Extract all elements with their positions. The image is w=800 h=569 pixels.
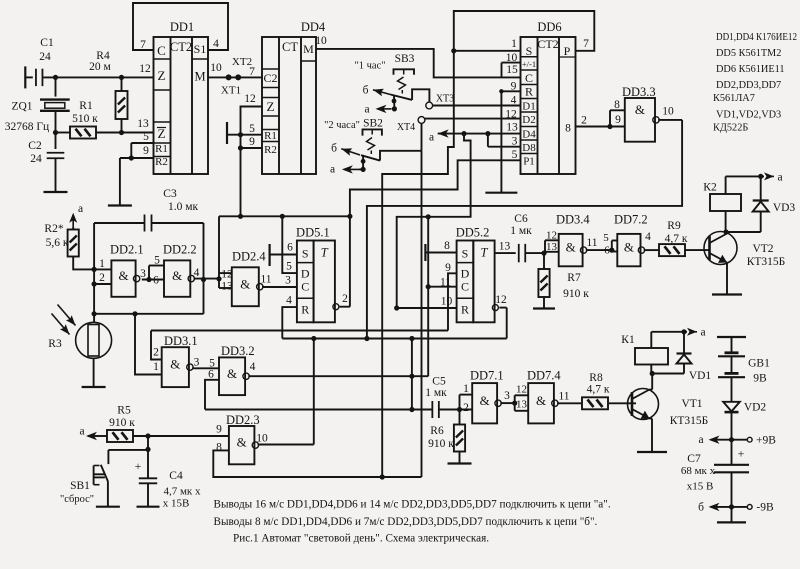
svg-text:Рис.1 Автомат "световой день".: Рис.1 Автомат "световой день". Схема эле… [233, 533, 489, 545]
svg-text:DD2,DD3,DD7: DD2,DD3,DD7 [716, 80, 781, 91]
svg-text:C: C [301, 280, 309, 294]
svg-text:13: 13 [499, 241, 511, 253]
svg-text:а: а [700, 327, 705, 339]
svg-text:R8: R8 [589, 372, 603, 384]
svg-text:68 мк х: 68 мк х [681, 465, 716, 477]
svg-text:К1: К1 [621, 334, 635, 346]
svg-text:2: 2 [581, 115, 587, 127]
svg-text:R: R [301, 303, 309, 317]
svg-text:3: 3 [512, 136, 518, 148]
svg-text:&: & [240, 276, 250, 291]
svg-text:DD5.1: DD5.1 [296, 226, 330, 240]
svg-text:4: 4 [213, 38, 219, 50]
svg-text:DD1,DD4 К176ИЕ12: DD1,DD4 К176ИЕ12 [716, 32, 797, 43]
svg-text:КТ315Б: КТ315Б [670, 415, 709, 427]
svg-text:2: 2 [342, 293, 348, 305]
svg-text:SB1: SB1 [70, 480, 90, 492]
svg-text:T: T [321, 246, 329, 260]
svg-text:VD1: VD1 [689, 370, 712, 382]
svg-text:&: & [172, 268, 182, 283]
svg-text:DD2.4: DD2.4 [232, 250, 266, 264]
svg-text:&: & [566, 240, 576, 255]
svg-text:P1: P1 [523, 156, 535, 168]
svg-text:9: 9 [445, 262, 451, 274]
svg-text:DD2.2: DD2.2 [163, 243, 197, 257]
svg-text:&: & [480, 393, 490, 408]
svg-text:а: а [777, 172, 782, 184]
svg-text:+/-1: +/-1 [522, 59, 536, 69]
svg-text:13: 13 [221, 281, 233, 293]
svg-text:11: 11 [586, 237, 597, 249]
svg-text:б: б [331, 143, 337, 155]
svg-text:VT1: VT1 [681, 398, 702, 410]
svg-text:а: а [79, 426, 84, 438]
svg-text:8: 8 [216, 442, 222, 454]
svg-text:C7: C7 [687, 453, 701, 465]
svg-text:КД522Б: КД522Б [713, 123, 748, 134]
svg-text:1: 1 [511, 38, 517, 50]
svg-text:DD7.1: DD7.1 [470, 369, 504, 383]
svg-text:"1 час": "1 час" [354, 61, 385, 72]
svg-text:8: 8 [444, 240, 450, 252]
svg-text:12: 12 [495, 294, 507, 306]
svg-text:DD2.3: DD2.3 [226, 413, 260, 427]
svg-text:DD5.2: DD5.2 [456, 226, 490, 240]
svg-text:R1: R1 [79, 100, 93, 112]
svg-text:24: 24 [30, 153, 42, 165]
svg-text:10: 10 [256, 433, 268, 445]
svg-text:&: & [624, 240, 634, 255]
svg-text:5: 5 [603, 232, 609, 244]
svg-text:12: 12 [139, 63, 151, 75]
svg-text:+9В: +9В [756, 435, 776, 447]
svg-text:&: & [237, 435, 247, 450]
svg-text:-9В: -9В [756, 502, 774, 514]
svg-text:VT2: VT2 [752, 243, 773, 255]
svg-text:&: & [635, 102, 645, 117]
svg-text:&: & [227, 366, 237, 381]
svg-text:R6: R6 [430, 425, 444, 437]
svg-text:1 мк: 1 мк [510, 225, 532, 237]
svg-text:ZQ1: ZQ1 [11, 101, 32, 113]
svg-text:13: 13 [506, 122, 518, 134]
svg-text:D4: D4 [522, 129, 536, 141]
svg-text:C5: C5 [432, 376, 446, 388]
svg-text:CT2: CT2 [170, 40, 192, 54]
svg-text:24: 24 [39, 51, 51, 63]
svg-text:К2: К2 [703, 182, 717, 194]
svg-text:DD3.4: DD3.4 [556, 213, 590, 227]
svg-text:DD6: DD6 [537, 20, 561, 34]
svg-text:4: 4 [250, 361, 256, 373]
svg-text:15: 15 [506, 64, 518, 76]
svg-text:XT2: XT2 [232, 56, 252, 68]
svg-text:1: 1 [99, 258, 105, 270]
svg-text:12: 12 [221, 269, 233, 281]
svg-text:2: 2 [463, 402, 469, 414]
svg-text:5: 5 [512, 149, 518, 161]
svg-text:9: 9 [216, 424, 222, 436]
svg-text:11: 11 [260, 274, 271, 286]
svg-text:7: 7 [583, 38, 589, 50]
svg-text:2: 2 [99, 272, 105, 284]
svg-text:S: S [462, 247, 469, 261]
svg-text:R2*: R2* [44, 223, 63, 235]
svg-text:1: 1 [153, 361, 159, 373]
svg-text:T: T [480, 246, 488, 260]
svg-text:+: + [738, 447, 745, 461]
svg-text:M: M [194, 70, 205, 84]
svg-text:910 к: 910 к [109, 417, 135, 429]
svg-text:C3: C3 [163, 188, 177, 200]
svg-text:C1: C1 [40, 37, 54, 49]
svg-text:S: S [302, 247, 309, 261]
svg-text:DD7.4: DD7.4 [527, 369, 561, 383]
svg-text:C6: C6 [514, 213, 528, 225]
svg-text:5: 5 [249, 123, 255, 135]
svg-text:ХТ4: ХТ4 [397, 122, 415, 133]
svg-text:R1: R1 [155, 143, 168, 155]
svg-text:4,7 мк х: 4,7 мк х [163, 486, 201, 498]
svg-text:DD4: DD4 [301, 20, 326, 34]
svg-text:х15 В: х15 В [687, 481, 714, 493]
svg-text:DD7.2: DD7.2 [614, 213, 648, 227]
svg-text:&: & [170, 357, 180, 372]
svg-text:SB3: SB3 [395, 53, 415, 65]
svg-text:4,7 к: 4,7 к [587, 384, 610, 396]
svg-text:C: C [157, 43, 166, 58]
svg-text:VD3: VD3 [773, 202, 796, 214]
svg-text:R9: R9 [667, 220, 681, 232]
svg-text:КТ315Б: КТ315Б [747, 256, 786, 268]
svg-text:D2: D2 [522, 114, 535, 126]
svg-text:4,7 к: 4,7 к [665, 233, 688, 245]
svg-text:10: 10 [210, 62, 222, 74]
svg-text:DD3.1: DD3.1 [164, 334, 198, 348]
svg-text:1 мк: 1 мк [425, 387, 447, 399]
svg-text:3: 3 [194, 357, 200, 369]
svg-text:9: 9 [143, 145, 149, 157]
svg-text:ХТ3: ХТ3 [436, 94, 454, 105]
svg-text:DD1: DD1 [170, 20, 194, 34]
svg-text:6: 6 [287, 242, 293, 254]
svg-text:13: 13 [137, 118, 149, 130]
svg-text:Z: Z [158, 68, 166, 83]
svg-text:х 15В: х 15В [163, 498, 190, 510]
svg-text:S: S [526, 44, 533, 58]
svg-text:910 к: 910 к [563, 288, 589, 300]
svg-text:2: 2 [153, 347, 159, 359]
svg-text:Выводы 8 м/с DD1,DD4,DD6 и 7м/: Выводы 8 м/с DD1,DD4,DD6 и 7м/с DD2,DD3,… [214, 516, 598, 528]
svg-text:R2: R2 [155, 156, 168, 168]
svg-text:а: а [330, 164, 335, 176]
svg-text:4: 4 [194, 267, 200, 279]
svg-text:8: 8 [614, 99, 620, 111]
svg-text:VD2: VD2 [744, 402, 767, 414]
svg-text:C2: C2 [263, 71, 277, 85]
svg-text:б: б [363, 85, 369, 97]
svg-text:510 к: 510 к [72, 113, 98, 125]
svg-text:D1: D1 [522, 101, 535, 113]
svg-text:а: а [429, 132, 434, 144]
svg-text:10: 10 [441, 296, 453, 308]
svg-text:P: P [564, 44, 571, 58]
svg-text:б: б [698, 502, 704, 514]
svg-text:13: 13 [516, 399, 528, 411]
svg-text:12: 12 [244, 93, 256, 105]
svg-text:R5: R5 [117, 405, 131, 417]
svg-text:9: 9 [615, 114, 621, 126]
svg-text:6: 6 [153, 275, 159, 287]
svg-text:R: R [461, 303, 469, 317]
svg-text:11: 11 [558, 391, 569, 403]
svg-text:"сброс": "сброс" [60, 494, 94, 505]
svg-text:DD3.3: DD3.3 [622, 85, 656, 99]
svg-text:3: 3 [140, 268, 146, 280]
svg-text:3: 3 [285, 275, 291, 287]
svg-text:Выводы 16 м/с DD1,DD4,DD6 и 14: Выводы 16 м/с DD1,DD4,DD6 и 14 м/с DD2,D… [214, 499, 611, 511]
svg-text:&: & [536, 393, 546, 408]
svg-text:R1: R1 [264, 130, 277, 142]
svg-text:D: D [461, 267, 470, 281]
svg-text:9: 9 [249, 136, 255, 148]
svg-text:S1: S1 [194, 42, 207, 56]
svg-text:CT: CT [282, 40, 298, 54]
svg-text:К561ЛА7: К561ЛА7 [713, 93, 755, 104]
svg-text:C4: C4 [169, 470, 183, 482]
svg-text:C: C [461, 280, 469, 294]
svg-text:910 к: 910 к [428, 438, 454, 450]
svg-text:C2: C2 [28, 140, 42, 152]
svg-text:9В: 9В [753, 373, 767, 385]
svg-text:4: 4 [645, 231, 651, 243]
svg-text:CT2: CT2 [537, 37, 558, 51]
svg-text:DD5 К561ТМ2: DD5 К561ТМ2 [716, 48, 781, 59]
svg-text:&: & [118, 268, 128, 283]
svg-text:DD3.2: DD3.2 [221, 344, 255, 358]
svg-text:5,6 к: 5,6 к [46, 237, 69, 249]
svg-text:C: C [525, 71, 533, 85]
svg-text:1: 1 [463, 383, 469, 395]
svg-text:3: 3 [504, 390, 510, 402]
svg-text:а: а [364, 104, 369, 116]
svg-text:SB2: SB2 [363, 118, 383, 130]
svg-text:10: 10 [662, 106, 674, 118]
svg-text:R3: R3 [48, 338, 62, 350]
svg-text:D: D [301, 267, 310, 281]
svg-text:"2 часа": "2 часа" [324, 120, 360, 131]
svg-text:32768 Гц: 32768 Гц [5, 121, 49, 133]
svg-text:а: а [78, 203, 83, 215]
svg-text:Z: Z [158, 126, 166, 141]
svg-text:D8: D8 [522, 142, 536, 154]
svg-text:10: 10 [315, 35, 327, 47]
svg-text:1.0 мк: 1.0 мк [168, 201, 199, 213]
svg-text:6: 6 [208, 369, 214, 381]
svg-text:R2: R2 [264, 144, 277, 156]
svg-text:XT1: XT1 [221, 85, 241, 97]
svg-text:5: 5 [286, 261, 292, 273]
svg-text:12: 12 [516, 384, 527, 396]
svg-text:M: M [303, 42, 314, 56]
svg-text:VD1,VD2,VD3: VD1,VD2,VD3 [716, 110, 781, 121]
svg-text:R7: R7 [567, 272, 581, 284]
svg-text:GB1: GB1 [748, 358, 770, 370]
svg-text:8: 8 [565, 123, 571, 135]
svg-text:+: + [135, 459, 142, 473]
svg-text:4: 4 [286, 295, 292, 307]
svg-text:20 м: 20 м [89, 61, 111, 73]
svg-text:Z: Z [267, 99, 275, 114]
svg-text:а: а [698, 434, 703, 446]
svg-text:DD2.1: DD2.1 [110, 243, 144, 257]
svg-text:DD6 К561ИЕ11: DD6 К561ИЕ11 [716, 64, 785, 75]
svg-text:R: R [525, 85, 533, 99]
